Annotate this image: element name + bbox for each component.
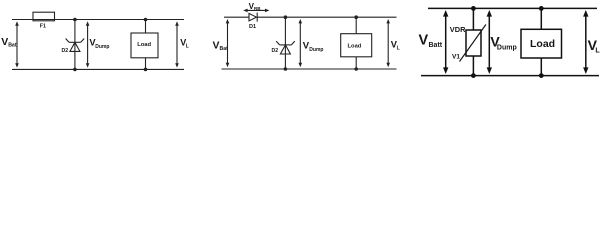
node VL voltage arrow (circuit3) [583,10,588,74]
svg-text:Bat: Bat [220,46,229,52]
svg-text:V: V [213,40,220,52]
svg-text:V: V [1,36,8,48]
junction: load bottom (circuit1) [144,68,148,72]
svg-text:D2: D2 [62,48,69,54]
wire: circuit2 bottom rail [222,68,397,70]
zener diode D2 (circuit2) [276,17,295,69]
wire: circuit2 top rail left [224,16,249,18]
node VBatt voltage arrow (circuit3) [443,10,448,74]
load box (circuit3) [521,8,562,75]
junction: load top (circuit3) [539,6,544,11]
svg-text:VDR: VDR [450,25,466,34]
label VDump (circuit2) [303,41,324,53]
node VDump voltage arrow (circuit1) [86,21,90,67]
svg-text:D2: D2 [272,48,279,54]
junction: load top (circuit1) [144,18,148,22]
varistor V1 (VDR) [460,8,486,75]
node VBat voltage arrow (circuit1) [15,21,19,67]
load box (circuit1) [131,20,158,70]
load box (circuit2) [341,17,372,69]
node VL voltage arrow (circuit2) [386,19,390,67]
fuse F1 [33,12,55,21]
svg-text:Load: Load [530,38,555,50]
svg-text:Batt: Batt [429,42,443,49]
label VL (circuit2) [391,40,400,52]
wire: circuit1 top rail [12,19,184,21]
label VL (circuit3) [588,37,600,54]
wire: circuit1 bottom rail [12,68,184,70]
diode D1 [249,13,257,22]
node VDump voltage arrow (circuit3) [487,10,492,74]
svg-text:Bat: Bat [8,43,17,49]
svg-text:Dump: Dump [497,44,517,51]
svg-text:L: L [595,48,600,55]
junction: load bottom (circuit2) [354,67,358,71]
label VDump (circuit3) [490,34,516,52]
svg-text:Dump: Dump [95,44,109,50]
node VBat voltage arrow (circuit2) [226,19,230,67]
junction: zener top (circuit1) [73,18,77,22]
junction: load top (circuit2) [354,15,358,19]
svg-text:Load: Load [348,44,362,50]
wire: circuit2 top rail right [257,16,396,18]
junction: zener bottom (circuit1) [73,68,77,72]
label VL (circuit1) [180,37,189,49]
junction: varistor top (circuit3) [471,6,476,11]
zener diode D2 (circuit1) [66,20,85,70]
svg-text:L: L [186,43,189,49]
node VDump voltage arrow (circuit2) [299,19,303,67]
node VRB measuring arrow over D1 [243,9,269,13]
node VL voltage arrow (circuit1) [175,21,179,67]
label VDump (circuit1) [89,38,109,50]
svg-text:RB: RB [254,6,261,11]
svg-text:F1: F1 [40,24,46,30]
svg-text:D1: D1 [249,24,256,30]
label VRB [249,2,262,11]
svg-text:V1: V1 [452,54,460,61]
junction: zener bottom (circuit2) [284,67,288,71]
svg-text:V: V [419,32,429,48]
svg-text:L: L [397,46,400,52]
junction: varistor bottom (circuit3) [471,73,476,78]
junction: load bottom (circuit3) [539,73,544,78]
junction: zener top (circuit2) [284,15,288,19]
svg-text:Dump: Dump [309,47,323,53]
label VBat (circuit1) [1,36,17,48]
label VBatt (circuit3) [419,32,443,49]
wire: circuit3 top rail [428,7,597,9]
label VBat (circuit2) [213,40,229,52]
wire: circuit3 bottom rail [421,75,599,77]
svg-text:Load: Load [137,42,151,48]
